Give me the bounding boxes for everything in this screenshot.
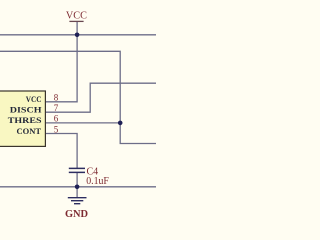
svg-text:6: 6 <box>54 114 59 124</box>
svg-text:8: 8 <box>54 93 59 103</box>
svg-text:VCC: VCC <box>66 9 87 21</box>
svg-text:7: 7 <box>54 103 59 113</box>
svg-text:5: 5 <box>54 124 59 134</box>
svg-text:THRES: THRES <box>8 116 42 125</box>
svg-text:VCC: VCC <box>26 95 42 104</box>
svg-text:CONT: CONT <box>17 127 42 136</box>
svg-text:0.1uF: 0.1uF <box>86 176 109 187</box>
svg-text:DISCH: DISCH <box>10 106 43 115</box>
svg-text:GND: GND <box>65 208 88 220</box>
